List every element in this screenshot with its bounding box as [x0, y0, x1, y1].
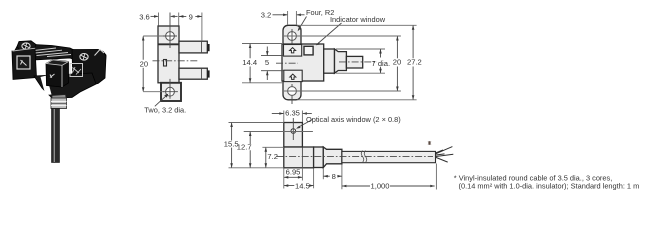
lower optical window: [284, 70, 302, 81]
label Four, R2: [298, 17, 306, 31]
body (bottom view): [284, 147, 314, 168]
dim 6.95: [284, 168, 303, 189]
cube B top face highlight: [46, 60, 68, 66]
right block: [72, 50, 106, 87]
dim 8: [323, 165, 342, 190]
asterisk above cable end: [428, 141, 431, 145]
label Indicator window: [318, 23, 342, 44]
optical slit circle: [291, 129, 296, 134]
footnote: [454, 174, 639, 191]
right block top corner highlight: [95, 50, 105, 56]
left lug screw: [22, 43, 30, 49]
svg-text:5: 5: [265, 58, 269, 67]
optical centerline stub: [276, 62, 298, 64]
head slab (bottom view): [284, 123, 303, 148]
fitting centerline: [339, 61, 377, 63]
svg-text:6.35: 6.35: [285, 109, 300, 118]
sparkle window square: [70, 64, 83, 77]
centerline through slot: [153, 60, 198, 62]
svg-text:3.2: 3.2: [261, 11, 272, 20]
svg-text:8: 8: [332, 172, 336, 181]
side view body column: [158, 26, 179, 83]
main bar mass: [14, 45, 106, 63]
cable break mark: [361, 151, 367, 163]
svg-text:14.4: 14.4: [242, 58, 257, 67]
svg-text:Optical axis window (2 × 0.8): Optical axis window (2 × 0.8): [306, 115, 401, 124]
frayed wire ends: [436, 147, 453, 163]
dim 7 dia.: [336, 49, 385, 73]
label Two, 3.2 dia.: [155, 95, 167, 107]
dim 14.4: [242, 44, 283, 83]
dim 15.5: [229, 123, 284, 168]
bottom wedge: [34, 73, 96, 98]
ferrule: [51, 98, 67, 109]
bottom hole: [166, 87, 175, 96]
svg-text:6.95: 6.95: [286, 167, 301, 176]
indicator window (front): [304, 46, 313, 55]
dim 7.2: [262, 146, 283, 148]
cube B (center prong): [46, 60, 69, 88]
collar (bottom view): [314, 147, 324, 168]
slot gap white wedge: [41, 76, 52, 96]
cube A (left prong): [12, 48, 37, 80]
dim 3.2: [288, 11, 297, 25]
cube A top edge highlight: [13, 48, 36, 51]
svg-text:(0.14 mm² with 1.0-dia. insula: (0.14 mm² with 1.0-dia. insulator); Stan…: [459, 182, 640, 191]
cable: [342, 151, 436, 162]
svg-text:27.2: 27.2: [407, 58, 422, 67]
left lug top: [17, 41, 36, 51]
micro text streaks on bar: [34, 48, 71, 57]
body (front): [282, 44, 324, 81]
svg-text:12.7: 12.7: [237, 143, 252, 152]
svg-text:20: 20: [140, 60, 148, 69]
cube B front-right edge highlight: [61, 65, 63, 87]
internal body line: [301, 148, 303, 168]
prong divider lines: [201, 41, 203, 79]
svg-text:Two, 3.2 dia.: Two, 3.2 dia.: [144, 106, 186, 115]
mounting plate (front): [283, 25, 301, 100]
dim 9: [178, 13, 180, 26]
bottom hole (front): [288, 87, 297, 96]
dim 12.7: [244, 131, 313, 133]
nose of cable fitting: [346, 56, 362, 68]
cable: [52, 109, 60, 163]
bottom block: [161, 83, 181, 101]
dark nub top prong: [207, 44, 209, 51]
svg-text:1,000: 1,000: [370, 182, 389, 191]
top hole: [166, 32, 175, 41]
top prong: [179, 41, 207, 53]
svg-text:20: 20: [393, 58, 401, 67]
dim 3.6: [158, 13, 160, 26]
svg-text:9: 9: [189, 12, 193, 21]
svg-text:7.2: 7.2: [267, 152, 278, 161]
svg-text:7 dia.: 7 dia.: [372, 59, 391, 68]
right lug screw: [80, 54, 88, 61]
thick edge under top block: [158, 43, 179, 45]
indicator rect (side): [164, 60, 167, 67]
ferrule top cap: [52, 95, 66, 99]
collar of cable fitting: [324, 49, 335, 73]
lower window arrow: [290, 74, 296, 79]
upper window arrow: [290, 48, 296, 53]
3D pictorial sensor: [12, 41, 106, 163]
dim 20 (front): [284, 36, 401, 91]
barrel (bottom view): [323, 147, 342, 168]
svg-text:Indicator window: Indicator window: [330, 15, 386, 24]
dim 6.35: [284, 111, 303, 123]
dim 1,000: [435, 164, 437, 190]
dim 20 (side): [143, 36, 164, 92]
label Optical axis window: [298, 120, 313, 128]
svg-text:3.6: 3.6: [139, 12, 150, 21]
svg-text:14.5: 14.5: [295, 181, 310, 190]
upper optical window: [284, 45, 302, 57]
cable axis: [277, 156, 434, 158]
dim 5: [261, 56, 284, 71]
top hole (front): [288, 32, 297, 41]
cube A window: [17, 56, 30, 69]
dim 14.5: [313, 169, 315, 189]
dim 27.2: [297, 25, 417, 100]
bottom prong: [179, 68, 207, 79]
dark nub bottom prong: [207, 70, 209, 77]
barrel of cable fitting: [335, 49, 347, 73]
cube B window tick: [50, 74, 55, 78]
